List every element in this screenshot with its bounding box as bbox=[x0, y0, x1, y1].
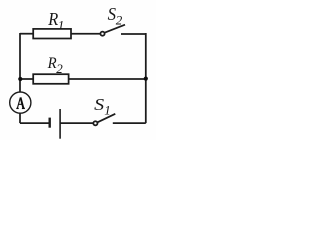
svg-text:1: 1 bbox=[104, 103, 111, 118]
svg-text:S: S bbox=[94, 95, 105, 114]
svg-text:1: 1 bbox=[58, 18, 64, 33]
svg-text:R: R bbox=[47, 9, 58, 29]
svg-text:2: 2 bbox=[116, 13, 123, 28]
svg-text:2: 2 bbox=[56, 61, 63, 76]
